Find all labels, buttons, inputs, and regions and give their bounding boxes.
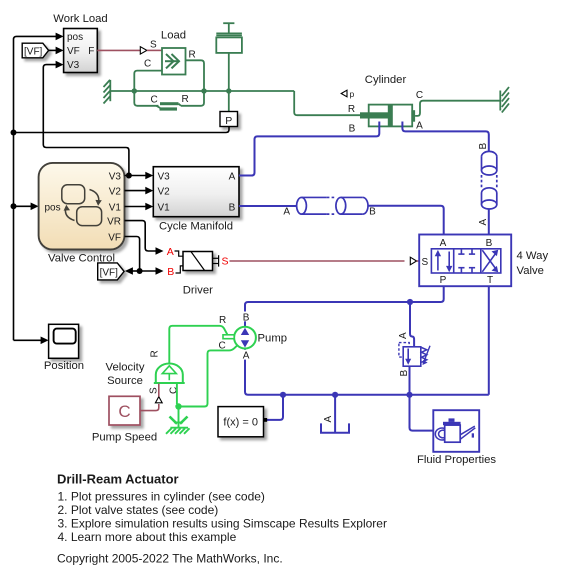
wire chart VF to Driver B and goto tag <box>125 237 158 272</box>
wire horizontal pipe B to 4 way valve A <box>368 206 444 235</box>
svg-text:S: S <box>149 387 160 394</box>
arrowhead into Work Load pos <box>56 33 64 41</box>
wire pump B to valve P <box>245 286 444 327</box>
svg-text:P: P <box>440 275 447 286</box>
svg-text:A: A <box>167 246 174 258</box>
svg-text:R: R <box>150 350 161 357</box>
svg-text:B: B <box>349 124 356 135</box>
svg-text:[VF]: [VF] <box>100 267 119 278</box>
junction pos-P <box>11 130 17 136</box>
svg-text:Source: Source <box>107 375 143 387</box>
svg-text:V2: V2 <box>158 186 171 197</box>
wire pump C to rotational network <box>179 345 238 406</box>
subsystem Cycle Manifold <box>153 167 239 217</box>
From tag [VF] top <box>22 43 48 58</box>
wire to solver configuration <box>267 395 283 420</box>
wire Driver S to 4 way valve S <box>230 260 405 262</box>
svg-text:B: B <box>399 370 410 377</box>
subsystem Work Load <box>64 29 98 73</box>
svg-text:VF: VF <box>67 46 80 57</box>
svg-text:A: A <box>323 416 334 423</box>
wire bottom rail pump A to valve T <box>245 349 489 395</box>
wire to Fluid Properties <box>410 395 434 431</box>
svg-text:A: A <box>478 219 489 226</box>
junction rotational ground <box>175 403 181 409</box>
wire cylinder C to ground <box>415 101 500 116</box>
svg-text:A: A <box>229 171 236 182</box>
rotational reference ground <box>166 407 190 434</box>
svg-text:V1: V1 <box>109 202 122 213</box>
svg-text:VR: VR <box>107 216 121 227</box>
svg-text:Cycle Manifold: Cycle Manifold <box>159 221 233 233</box>
wire F output (PS) from Work Load to Load S <box>97 49 140 51</box>
wire velocity source C down to ground junction <box>176 383 178 404</box>
svg-text:T: T <box>487 275 493 286</box>
svg-text:S: S <box>222 256 229 268</box>
wire mechanical C branch to Load <box>134 71 162 91</box>
sensor block P <box>220 112 238 127</box>
wire chart V2 to Cycle Manifold <box>125 190 148 192</box>
constant block Pump Speed <box>109 396 140 425</box>
chart Valve Control <box>39 163 125 250</box>
relief valve <box>410 302 414 347</box>
svg-text:Pump: Pump <box>258 333 288 345</box>
svg-text:1. Plot pressures in cylinder: 1. Plot pressures in cylinder (see code) <box>58 489 265 503</box>
svg-text:[VF]: [VF] <box>24 46 43 57</box>
valve 4 Way Valve <box>419 235 511 287</box>
wire V3 feedback from chart V3 to Work Load V3 <box>43 65 129 176</box>
wire from [VF] tag to Work Load VF <box>49 49 58 51</box>
wire Load R to right rail <box>186 60 205 91</box>
svg-text:4 Way: 4 Way <box>517 250 549 262</box>
svg-text:S: S <box>422 257 429 268</box>
svg-text:A: A <box>416 121 423 132</box>
mass block <box>216 23 242 91</box>
junction pos-chart <box>11 203 17 209</box>
svg-text:pos: pos <box>67 32 83 43</box>
svg-text:C: C <box>169 387 180 394</box>
wire pos signal from sensor P to Work Load / Valve Control / Position scope <box>14 36 230 340</box>
svg-text:F: F <box>88 46 94 57</box>
wire cylinder A to vertical pipe B <box>402 122 488 152</box>
wire manifold A to cylinder B (hydraulic) <box>239 122 379 176</box>
junction relief valve bottom / fluid properties <box>406 392 412 398</box>
svg-text:Fluid Properties: Fluid Properties <box>417 454 496 466</box>
svg-text:C: C <box>416 90 423 101</box>
translational ground (right) <box>500 87 509 113</box>
PS input triangle at Load S <box>140 47 147 54</box>
block Fluid Properties <box>433 410 479 452</box>
svg-text:Velocity: Velocity <box>106 362 145 374</box>
svg-text:B: B <box>229 202 236 213</box>
svg-text:p: p <box>350 89 355 99</box>
junction relief valve top <box>407 299 413 305</box>
svg-text:V3: V3 <box>109 171 122 182</box>
svg-text:4. Learn more about this examp: 4. Learn more about this example <box>58 530 237 544</box>
svg-text:C: C <box>118 402 130 421</box>
node junction mass/P <box>226 88 231 93</box>
svg-text:Work Load: Work Load <box>53 13 107 25</box>
wire vertical pipe A to 4 way valve B <box>488 209 490 235</box>
wire pump speed to velocity source S <box>140 404 159 411</box>
svg-text:Driver: Driver <box>183 285 213 297</box>
svg-text:Pump Speed: Pump Speed <box>92 432 157 444</box>
junction solver tap <box>280 392 286 398</box>
scope Position <box>49 324 79 358</box>
svg-text:R: R <box>348 104 355 115</box>
arrowhead into Position scope <box>41 337 49 345</box>
svg-text:f(x) = 0: f(x) = 0 <box>223 416 258 428</box>
svg-text:Copyright 2005-2022 The MathWo: Copyright 2005-2022 The MathWorks, Inc. <box>57 551 283 565</box>
junction tank tap <box>332 392 338 398</box>
tank (hydraulic reference) <box>334 395 336 433</box>
svg-text:V3: V3 <box>67 60 80 71</box>
wire chart VR to Driver A <box>125 221 158 251</box>
arrowhead into Valve Control pos <box>31 203 39 211</box>
friction block Load <box>162 48 186 75</box>
svg-text:C: C <box>151 95 158 106</box>
node junction right <box>201 88 206 93</box>
svg-text:Cylinder: Cylinder <box>365 74 407 86</box>
svg-text:Load: Load <box>161 30 186 42</box>
svg-text:VF: VF <box>108 232 121 243</box>
pipe horizontal <box>297 197 368 214</box>
svg-text:C: C <box>144 59 151 70</box>
svg-text:R: R <box>182 94 189 105</box>
pump <box>234 327 256 349</box>
svg-text:B: B <box>486 238 493 249</box>
svg-text:V2: V2 <box>109 186 122 197</box>
svg-text:A: A <box>398 332 409 339</box>
svg-text:A: A <box>243 351 250 362</box>
wire chart V3 to Cycle Manifold <box>125 175 148 177</box>
converter block Driver <box>183 252 213 271</box>
translational ground (left) <box>104 80 135 104</box>
wire velocity source R to pump R <box>169 326 227 364</box>
svg-text:A: A <box>283 207 290 218</box>
wire chart V1 to Cycle Manifold <box>125 206 148 208</box>
svg-text:Valve: Valve <box>517 265 544 277</box>
wire mechanical rail to cylinder rod <box>134 91 361 115</box>
arrowhead into Work Load V3 <box>56 61 64 69</box>
svg-text:R: R <box>219 315 226 326</box>
wire manifold B to horizontal pipe A <box>239 205 297 207</box>
svg-text:B: B <box>243 312 250 323</box>
svg-text:B: B <box>167 266 174 278</box>
svg-text:B: B <box>478 143 489 150</box>
pipe vertical <box>482 151 497 209</box>
svg-text:V1: V1 <box>158 202 171 213</box>
svg-text:B: B <box>369 207 376 218</box>
svg-text:pos: pos <box>45 202 61 213</box>
goto tag [VF] bottom <box>98 263 124 280</box>
velocity source <box>156 364 183 384</box>
hard stop damper branch <box>134 91 204 108</box>
svg-text:Position: Position <box>44 360 84 372</box>
svg-text:3. Explore simulation results: 3. Explore simulation results using Sims… <box>58 517 387 531</box>
svg-text:S: S <box>150 40 157 51</box>
wire valve T to bottom rail <box>488 286 490 395</box>
svg-text:V3: V3 <box>158 171 171 182</box>
svg-text:P: P <box>225 115 232 127</box>
svg-text:2. Plot valve states (see code: 2. Plot valve states (see code) <box>58 503 219 517</box>
arrowhead into Work Load VF <box>56 47 64 55</box>
svg-text:Drill-Ream Actuator: Drill-Ream Actuator <box>57 472 179 487</box>
solver configuration f(x)=0 <box>218 407 264 437</box>
svg-text:R: R <box>189 50 196 61</box>
svg-text:A: A <box>440 238 447 249</box>
node junction left <box>132 88 137 93</box>
